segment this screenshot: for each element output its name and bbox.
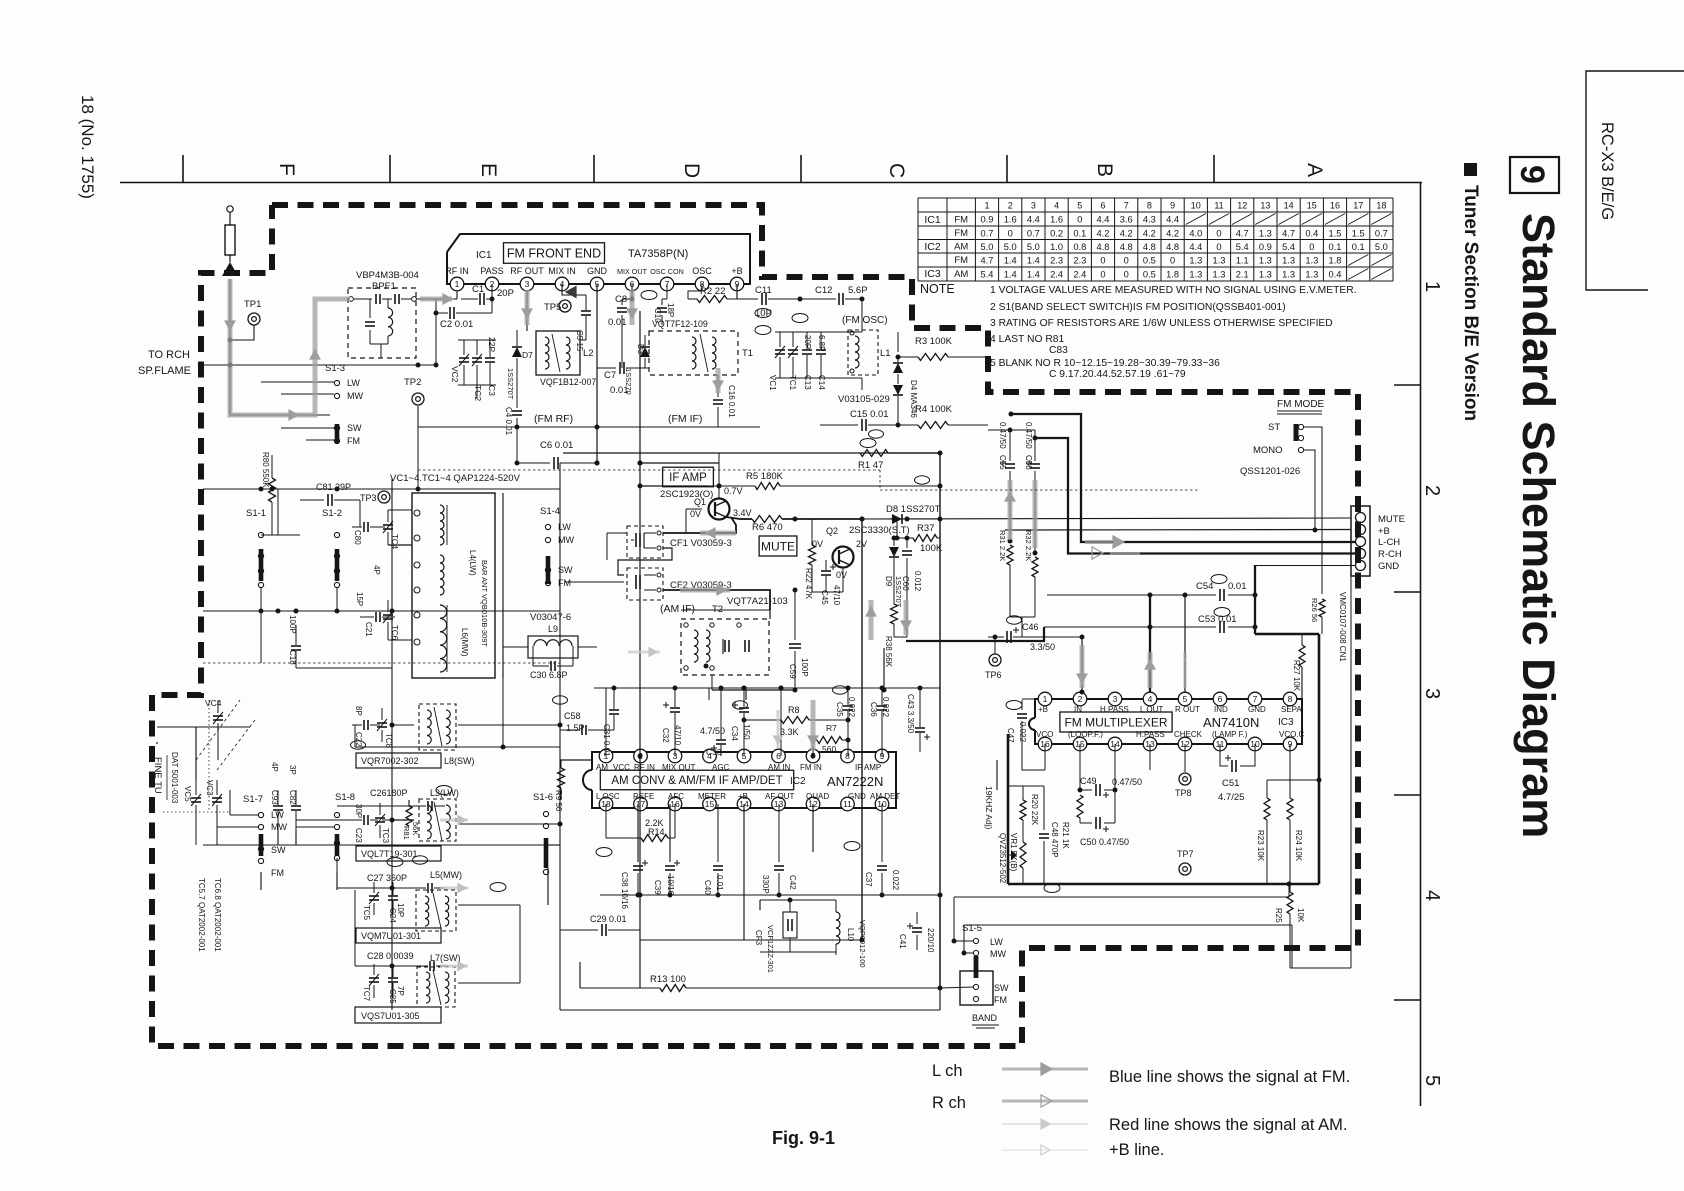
- svg-text:R38 56K: R38 56K: [884, 636, 893, 668]
- svg-text:C58: C58: [564, 711, 581, 721]
- svg-text:4.8: 4.8: [1120, 242, 1133, 252]
- wire L OUT up: [1149, 595, 1151, 692]
- svg-text:1.4: 1.4: [1027, 269, 1040, 279]
- svg-text:TA7358P(N): TA7358P(N): [628, 248, 688, 260]
- svg-text:MW: MW: [347, 391, 363, 401]
- signal path L det: [869, 600, 874, 640]
- coil L1 box: [848, 330, 878, 375]
- svg-text:+B: +B: [1378, 526, 1390, 537]
- wire +B long rail: [563, 452, 940, 454]
- svg-text:TO RCH: TO RCH: [148, 349, 190, 361]
- svg-text:MW: MW: [271, 822, 287, 832]
- svg-text:TC8: TC8: [384, 733, 393, 749]
- svg-text:ST: ST: [1268, 422, 1280, 433]
- svg-text:FM: FM: [994, 995, 1007, 1005]
- svg-text:1.3: 1.3: [1213, 255, 1226, 265]
- svg-text:V03047-6: V03047-6: [530, 612, 571, 623]
- svg-text:E: E: [477, 163, 500, 177]
- wire MIX OUT drop: [631, 284, 633, 299]
- svg-text:2: 2: [1008, 201, 1013, 211]
- svg-text:3: 3: [1113, 694, 1118, 704]
- svg-text:BAND: BAND: [972, 1013, 998, 1023]
- svg-text:6: 6: [776, 751, 781, 761]
- svg-text:VQT7A21-103: VQT7A21-103: [727, 596, 788, 607]
- wire dashed thin inner: [203, 662, 560, 664]
- svg-text:VQL7T19-301: VQL7T19-301: [361, 849, 418, 859]
- svg-text:IF AMP: IF AMP: [855, 763, 881, 772]
- wire S1-8 to C28 row: [355, 965, 418, 967]
- svg-text:C80: C80: [353, 530, 362, 545]
- wire IF amp rail: [640, 462, 719, 464]
- svg-text:C15 0.01: C15 0.01: [850, 409, 889, 420]
- wire bottom long rail B: [964, 924, 1292, 926]
- svg-text:(LOOP.F.): (LOOP.F.): [1068, 730, 1103, 739]
- svg-text:FM IN: FM IN: [800, 763, 822, 772]
- ruler tick: [800, 155, 802, 182]
- svg-text:C26180P: C26180P: [370, 788, 408, 798]
- legend L ch arrow: [1002, 1068, 1088, 1071]
- svg-text:4.3: 4.3: [1143, 214, 1156, 224]
- svg-text:R31 2.2K: R31 2.2K: [998, 530, 1007, 561]
- svg-text:4 LAST NO R81: 4 LAST NO R81: [990, 334, 1064, 345]
- svg-text:TC5.7 QAT2002-001: TC5.7 QAT2002-001: [197, 878, 206, 952]
- svg-text:TP7: TP7: [1177, 849, 1194, 859]
- signal path into IN pin: [1080, 645, 1085, 688]
- svg-text:R32 2.2K: R32 2.2K: [1024, 530, 1033, 561]
- svg-text:1.4: 1.4: [1027, 255, 1040, 265]
- svg-text:H.PASS: H.PASS: [1100, 705, 1129, 714]
- svg-text:4.8: 4.8: [1143, 242, 1156, 252]
- svg-text:FM MODE: FM MODE: [1277, 399, 1325, 410]
- svg-text:14: 14: [1284, 201, 1294, 211]
- legend red line arrow: [1002, 1123, 1088, 1125]
- svg-text:3P: 3P: [288, 765, 297, 775]
- svg-text:4.4: 4.4: [1027, 214, 1040, 224]
- signal path to FM IN: [811, 700, 816, 750]
- svg-text:8: 8: [1147, 201, 1152, 211]
- coil L8 box: [419, 704, 456, 750]
- ruler tick: [1394, 384, 1420, 386]
- svg-text:0: 0: [1100, 269, 1105, 279]
- voltage table grid: [918, 198, 1393, 281]
- svg-text:IC2: IC2: [924, 241, 941, 253]
- svg-text:0.4: 0.4: [1329, 269, 1342, 279]
- svg-text:+B: +B: [731, 266, 742, 276]
- svg-text:0.2: 0.2: [1050, 228, 1063, 238]
- svg-text:R8: R8: [788, 705, 800, 715]
- wire IC2 pin drops: [605, 688, 607, 756]
- svg-text:0: 0: [1100, 255, 1105, 265]
- svg-text:4.7: 4.7: [1282, 228, 1295, 238]
- legend R ch arrow: [1002, 1100, 1088, 1103]
- svg-text:R5 180K: R5 180K: [746, 471, 784, 482]
- signal path to CF1: [700, 531, 736, 536]
- label VQR7002-302: [356, 753, 441, 768]
- wire FM RF bottom rail: [517, 426, 597, 428]
- dashed gang links: [196, 700, 240, 760]
- antenna: [227, 206, 233, 212]
- label VQM7U01-301: [356, 928, 441, 943]
- signal path AM into IC2: [777, 710, 780, 748]
- svg-text:R7: R7: [826, 723, 837, 733]
- svg-text:R81: R81: [402, 826, 411, 840]
- svg-text:1.8: 1.8: [1166, 269, 1179, 279]
- svg-text:20P: 20P: [497, 288, 514, 299]
- svg-text:1: 1: [455, 279, 460, 289]
- svg-text:TC6: TC6: [390, 625, 399, 641]
- svg-text:C40: C40: [703, 880, 712, 895]
- wire mute node: [894, 636, 907, 638]
- wire IC2 lower rails: [640, 939, 862, 941]
- svg-text:4.2: 4.2: [1120, 228, 1133, 238]
- svg-text:(AM IF): (AM IF): [660, 603, 695, 615]
- svg-text:S1-2: S1-2: [322, 508, 342, 519]
- wire ST line: [1304, 427, 1322, 594]
- svg-text:C51: C51: [1222, 778, 1239, 789]
- svg-text:11: 11: [1214, 201, 1223, 211]
- wire R OUT up: [1184, 595, 1186, 692]
- svg-text:4.7: 4.7: [981, 255, 994, 265]
- signal path AM T2: [628, 651, 660, 654]
- svg-text:IC3: IC3: [1278, 717, 1294, 728]
- wire L-CH bus: [1011, 414, 1356, 542]
- signal path C55 up: [1008, 480, 1013, 540]
- svg-text:VC3: VC3: [205, 780, 214, 796]
- svg-text:R37: R37: [917, 523, 934, 534]
- wire long mid horizontal: [560, 759, 592, 761]
- svg-text:VQS7U01-305: VQS7U01-305: [361, 1011, 420, 1021]
- svg-text:SW: SW: [347, 423, 362, 433]
- svg-text:+B: +B: [738, 792, 748, 801]
- op-amp IC1 TA7358P(N) FM front end: [447, 234, 750, 284]
- wire input line: [204, 364, 436, 366]
- svg-text:L9: L9: [548, 624, 558, 634]
- pattern ovals 2: [351, 430, 1022, 864]
- signal path AM L7: [440, 965, 468, 968]
- svg-text:VCO.C: VCO.C: [1279, 730, 1305, 739]
- svg-text:VC2: VC2: [450, 366, 460, 383]
- wire CF inputs common: [607, 532, 627, 534]
- svg-text:R ch: R ch: [932, 1094, 966, 1112]
- svg-text:C1: C1: [472, 284, 484, 295]
- svg-text:0.022: 0.022: [891, 870, 900, 891]
- ruler tick: [389, 155, 391, 182]
- coil L5 box: [416, 890, 456, 931]
- svg-text:CF3: CF3: [754, 930, 763, 946]
- connector CN1: [1351, 506, 1370, 576]
- svg-text:0.7V: 0.7V: [724, 486, 743, 496]
- svg-text:C29 0.01: C29 0.01: [590, 914, 627, 924]
- svg-text:TP3: TP3: [360, 493, 377, 503]
- svg-text:0.01: 0.01: [610, 385, 629, 396]
- wire TP2 column: [417, 427, 419, 489]
- svg-text:0: 0: [1216, 228, 1221, 238]
- capacitor C51 4.7/25: [1220, 744, 1228, 766]
- svg-text:QSS1201-026: QSS1201-026: [1240, 466, 1300, 477]
- wire dashed thin inner2: [418, 430, 880, 470]
- svg-text:(FM RF): (FM RF): [534, 413, 573, 425]
- svg-text:4P: 4P: [270, 762, 279, 772]
- svg-text:4P: 4P: [372, 565, 381, 575]
- svg-text:5.4: 5.4: [981, 269, 994, 279]
- svg-text:5 BLANK NO R 10~12.15~19.28~3: 5 BLANK NO R 10~12.15~19.28~30.39~79.33~…: [990, 358, 1220, 369]
- svg-text:CF1 V03059-3: CF1 V03059-3: [670, 538, 732, 549]
- svg-text:NOTE: NOTE: [920, 282, 955, 296]
- wire bar ant feeds: [388, 544, 412, 546]
- wire IC2 top rail: [594, 687, 940, 689]
- svg-text:0.8: 0.8: [1073, 242, 1086, 252]
- svg-text:L4(LW): L4(LW): [468, 550, 477, 576]
- wire TP1 stem: [230, 325, 254, 340]
- signal path mix in: [566, 287, 576, 298]
- svg-text:C6 0.01: C6 0.01: [540, 440, 573, 451]
- op-amp IC3 AN7410N FM multiplexer: [1035, 699, 1302, 744]
- wire S1-6 link: [545, 844, 560, 846]
- wire IN drop: [1081, 637, 1083, 692]
- svg-text:15: 15: [1307, 201, 1317, 211]
- wire IC3 +B frame: [1255, 633, 1319, 636]
- op-amp IC2 AN7222N AM conv/IF amp: [592, 752, 896, 808]
- svg-text:2: 2: [1421, 485, 1443, 496]
- wire C2 left drop: [435, 299, 437, 365]
- label FM FRONT END: [504, 243, 605, 264]
- svg-text:4: 4: [1148, 694, 1153, 704]
- svg-text:IN: IN: [1074, 705, 1082, 714]
- filter BPF1 internals: [349, 297, 354, 302]
- svg-text:0.47/50: 0.47/50: [998, 422, 1007, 449]
- svg-text:FM: FM: [271, 868, 284, 878]
- svg-text:0.1: 0.1: [1352, 242, 1365, 252]
- signal path MIX OUT: [630, 290, 635, 325]
- wire mid verticals: [559, 463, 561, 1010]
- svg-text:3: 3: [1031, 201, 1036, 211]
- svg-text:C11: C11: [755, 285, 772, 296]
- wire bottom long rail A: [954, 896, 1289, 898]
- wire +B bus to CN1: [1005, 529, 1351, 532]
- svg-text:Tuner Section B/E Version: Tuner Section B/E Version: [1460, 185, 1481, 421]
- svg-text:C43 3.3/50: C43 3.3/50: [906, 694, 915, 734]
- svg-text:R4 100K: R4 100K: [915, 404, 953, 415]
- svg-text:VQR7002-302: VQR7002-302: [361, 756, 419, 766]
- svg-text:0.7: 0.7: [1375, 228, 1388, 238]
- svg-text:R-CH: R-CH: [1378, 549, 1402, 560]
- svg-text:10K: 10K: [1296, 908, 1305, 923]
- wire VCO loop: [1044, 744, 1046, 770]
- wire RF OUT drop: [526, 291, 528, 331]
- corner bracket top right: [1586, 71, 1684, 290]
- wire C55 top rail: [988, 429, 1035, 431]
- svg-text:AFC: AFC: [668, 792, 684, 801]
- signal path RF OUT: [525, 290, 530, 325]
- svg-text:0V: 0V: [690, 509, 701, 519]
- svg-text:+B line.: +B line.: [1109, 1141, 1165, 1159]
- svg-text:C: C: [885, 163, 908, 178]
- svg-text:R23 10K: R23 10K: [1256, 830, 1265, 862]
- svg-text:VQF1B12-007: VQF1B12-007: [540, 377, 596, 387]
- svg-text:220/10: 220/10: [926, 928, 935, 953]
- svg-text:LW: LW: [271, 810, 284, 820]
- svg-text:1/50: 1/50: [742, 724, 751, 740]
- svg-text:T1: T1: [742, 348, 753, 359]
- svg-text:MIX OUT: MIX OUT: [617, 267, 648, 276]
- svg-text:MIX OUT: MIX OUT: [662, 763, 695, 772]
- svg-text:OSC: OSC: [692, 266, 712, 276]
- svg-text:4.4: 4.4: [1166, 214, 1179, 224]
- label FM MULTIPLEXER: [1060, 712, 1172, 732]
- svg-text:TP8: TP8: [1175, 788, 1192, 798]
- svg-text:VCF1ZZZ-301: VCF1ZZZ-301: [766, 925, 775, 973]
- svg-text:330P: 330P: [761, 875, 770, 894]
- junction dots extra: [595, 461, 600, 466]
- svg-text:5.4: 5.4: [1236, 242, 1249, 252]
- svg-text:L ch: L ch: [932, 1062, 963, 1080]
- test point TP6: [989, 654, 1001, 666]
- svg-text:3.4V: 3.4V: [733, 508, 752, 518]
- svg-text:0V: 0V: [836, 570, 847, 580]
- wire S1-7 left stubs: [230, 814, 258, 816]
- svg-text:TP2: TP2: [404, 377, 421, 388]
- wire S1-8 to C27 row: [337, 887, 415, 889]
- svg-text:C28 0.0039: C28 0.0039: [367, 951, 414, 961]
- ruler tick: [1394, 794, 1420, 796]
- bar antenna box: [412, 493, 495, 678]
- svg-text:OSC CON: OSC CON: [650, 267, 684, 276]
- svg-text:10P: 10P: [396, 903, 405, 917]
- svg-text:LW: LW: [990, 937, 1003, 947]
- svg-text:IC3: IC3: [924, 268, 941, 280]
- svg-text:5.0: 5.0: [1004, 242, 1017, 252]
- svg-text:Q1: Q1: [694, 497, 706, 507]
- signal path R OUT up: [1184, 652, 1187, 688]
- svg-text:1.8: 1.8: [1329, 255, 1342, 265]
- svg-text:1.3: 1.3: [1282, 255, 1295, 265]
- label MUTE: [759, 536, 797, 556]
- svg-text:Red line shows the signal at A: Red line shows the signal at AM.: [1109, 1116, 1347, 1134]
- svg-text:C34: C34: [730, 726, 739, 741]
- svg-text:2 S1(BAND SELECT SWITCH)IS FM: 2 S1(BAND SELECT SWITCH)IS FM POSITION(Q…: [990, 302, 1286, 313]
- svg-text:REFE: REFE: [633, 792, 654, 801]
- wire left rails B: [261, 534, 300, 536]
- legend +B line arrow: [1002, 1149, 1088, 1151]
- svg-text:FM: FM: [954, 228, 968, 239]
- svg-text:D8 1SS270T: D8 1SS270T: [886, 504, 941, 515]
- svg-text:R3 100K: R3 100K: [915, 336, 953, 347]
- svg-text:C54: C54: [1196, 581, 1213, 592]
- svg-text:H.PASS: H.PASS: [1136, 730, 1165, 739]
- ruler tick: [182, 155, 184, 182]
- svg-text:15P: 15P: [355, 592, 364, 606]
- svg-text:1.0: 1.0: [1050, 242, 1063, 252]
- svg-text:1: 1: [1421, 281, 1443, 292]
- svg-text:RF IN: RF IN: [634, 763, 655, 772]
- svg-text:1.6: 1.6: [1050, 214, 1063, 224]
- svg-text:B: B: [1093, 163, 1116, 177]
- wire dashed thin inner3: [880, 470, 1200, 490]
- svg-text:SW: SW: [271, 845, 286, 855]
- svg-text:C38 10/16: C38 10/16: [620, 872, 629, 909]
- svg-text:1.3: 1.3: [1305, 255, 1318, 265]
- svg-text:RC-X3 B/E/G: RC-X3 B/E/G: [1598, 122, 1616, 220]
- svg-text:AGC: AGC: [712, 763, 730, 772]
- svg-text:VQT7F12-109: VQT7F12-109: [652, 319, 708, 329]
- svg-text:IC2: IC2: [790, 776, 806, 787]
- wire bottom rails: [579, 962, 581, 988]
- svg-text:1 VOLTAGE VALUES ARE MEASURED: 1 VOLTAGE VALUES ARE MEASURED WITH NO SI…: [990, 285, 1357, 296]
- svg-text:L8(SW): L8(SW): [444, 756, 475, 766]
- ruler tick: [1394, 999, 1420, 1001]
- wire TP6 stem: [994, 637, 996, 654]
- svg-text:100P: 100P: [800, 658, 809, 677]
- ruler tick: [593, 155, 595, 182]
- svg-text:C5 15: C5 15: [575, 330, 584, 352]
- top border ruler line: [120, 182, 1422, 184]
- wire Q1 collector: [718, 453, 720, 486]
- svg-text:L1: L1: [880, 348, 891, 359]
- svg-text:AM DET: AM DET: [870, 792, 900, 801]
- svg-text:0.01: 0.01: [715, 875, 724, 891]
- svg-text:AM: AM: [596, 763, 608, 772]
- svg-text:12: 12: [1237, 201, 1247, 211]
- svg-text:0: 0: [1124, 269, 1129, 279]
- wire CF3 rails: [760, 899, 836, 901]
- svg-text:C46: C46: [1022, 622, 1039, 632]
- svg-text:L3(LW): L3(LW): [430, 788, 459, 798]
- svg-text:13: 13: [1260, 201, 1270, 211]
- svg-text:FM FRONT END: FM FRONT END: [507, 247, 601, 261]
- right border ruler line: [1420, 182, 1422, 1106]
- wire S1-5 feeds: [954, 940, 973, 942]
- ruler tick: [1006, 155, 1008, 182]
- svg-text:R1 47: R1 47: [858, 460, 883, 471]
- section marker square: [1464, 163, 1477, 176]
- svg-text:3.6: 3.6: [1120, 214, 1133, 224]
- svg-text:SEPA: SEPA: [1281, 705, 1302, 714]
- svg-text:2.4: 2.4: [1050, 269, 1063, 279]
- svg-text:QUAD: QUAD: [806, 792, 829, 801]
- svg-text:R OUT: R OUT: [1175, 705, 1200, 714]
- svg-text:5.6P: 5.6P: [848, 285, 868, 296]
- svg-text:TP1: TP1: [244, 299, 261, 310]
- svg-text:C60: C60: [901, 576, 910, 591]
- svg-text:8P: 8P: [354, 706, 363, 716]
- svg-text:18: 18: [1376, 201, 1386, 211]
- svg-text:R2 22: R2 22: [700, 286, 725, 297]
- svg-text:6: 6: [1100, 201, 1105, 211]
- svg-text:2.3: 2.3: [1050, 255, 1063, 265]
- svg-text:R6 470: R6 470: [752, 522, 783, 533]
- wire L2 to C5: [585, 331, 587, 340]
- svg-text:2.3: 2.3: [1073, 255, 1086, 265]
- svg-text:R9 56: R9 56: [554, 790, 563, 812]
- svg-text:1.3: 1.3: [1282, 269, 1295, 279]
- wire FM OSC rails: [775, 331, 862, 333]
- svg-text:AM IN: AM IN: [768, 763, 790, 772]
- svg-text:4.4: 4.4: [1189, 242, 1202, 252]
- svg-text:4: 4: [1054, 201, 1059, 211]
- svg-text:VMC0107-008 CN1: VMC0107-008 CN1: [1338, 592, 1347, 662]
- svg-text:C49: C49: [1080, 776, 1097, 786]
- wire T1 out rail: [718, 426, 760, 428]
- svg-text:FM MULTIPLEXER: FM MULTIPLEXER: [1064, 715, 1167, 729]
- svg-text:C12: C12: [815, 285, 832, 296]
- svg-text:VBP4M3B-004: VBP4M3B-004: [356, 270, 419, 281]
- signal path into RF IN: [420, 297, 452, 302]
- svg-text:C42: C42: [788, 875, 797, 890]
- svg-text:L10: L10: [846, 928, 855, 942]
- svg-text:CHECK: CHECK: [1174, 730, 1203, 739]
- wire S1-8 to C26 row: [337, 805, 415, 807]
- svg-text:MONO: MONO: [1253, 445, 1283, 456]
